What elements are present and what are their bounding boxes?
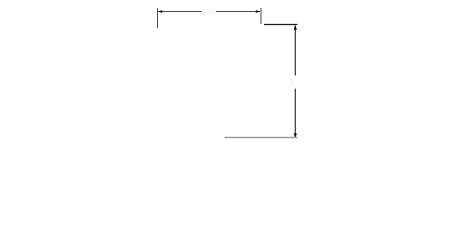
svg-text:1 m: 1 m <box>200 7 215 17</box>
svg-text:1: 1 <box>289 77 294 87</box>
